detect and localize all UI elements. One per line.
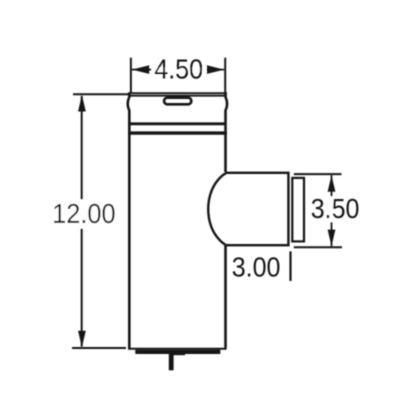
svg-text:12.00: 12.00 [52, 198, 116, 229]
svg-text:4.50: 4.50 [154, 54, 203, 85]
svg-text:3.00: 3.00 [232, 252, 281, 283]
svg-text:3.50: 3.50 [311, 193, 360, 224]
